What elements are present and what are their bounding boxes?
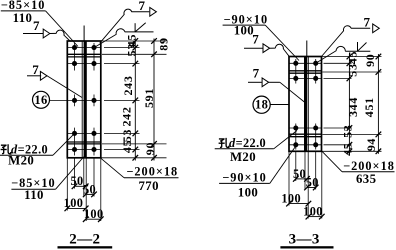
svg-text:100: 100 <box>84 207 104 221</box>
label hole leader to bolt <box>53 133 75 155</box>
svg-text:50: 50 <box>83 183 96 197</box>
weld symbol 7 lower-left: arrow triangle <box>40 71 47 80</box>
svg-text:53: 53 <box>341 124 355 137</box>
svg-text:110: 110 <box>24 188 44 202</box>
weld symbol flag right fig: flag stroke <box>358 43 367 52</box>
weld symbol 7 upper-left: arrow triangle <box>43 29 50 38</box>
label -200x18 leader <box>100 158 124 178</box>
inner chain extension lines right <box>324 62 352 64</box>
inner dimension line right <box>348 54 350 154</box>
brace member web plates right fig (thick bar + thin line) <box>304 57 307 152</box>
bolt row centerline r3 right <box>289 127 322 129</box>
svg-text:2—2: 2—2 <box>69 232 100 248</box>
weld symbol 7 upper-left right fig: reference line <box>244 47 263 49</box>
weld symbol 7 upper-right: arrow triangle <box>150 7 157 16</box>
label leader to top bolt <box>46 11 78 47</box>
svg-text:90: 90 <box>363 53 377 66</box>
svg-text:100: 100 <box>238 185 258 199</box>
weld symbol 7 upper-left: tail and all-around arc <box>50 32 57 34</box>
svg-text:45: 45 <box>120 140 134 153</box>
svg-text:M20: M20 <box>230 150 256 164</box>
inner dimension line <box>134 39 136 161</box>
section title 2-2 underline <box>58 246 113 248</box>
svg-text:16: 16 <box>34 93 47 107</box>
svg-text:53: 53 <box>346 63 360 76</box>
svg-text:243: 243 <box>121 75 135 95</box>
svg-text:M20: M20 <box>8 154 34 168</box>
label hole-dia glyph kong <box>1 145 6 147</box>
svg-text:344: 344 <box>346 97 360 117</box>
label hole underline right <box>215 148 274 150</box>
label -90x10 underline <box>223 24 266 26</box>
member centerline above plate right fig <box>306 41 308 57</box>
bolt row centerline r2 <box>67 63 101 65</box>
inner dimension ticks right <box>347 54 353 60</box>
svg-text:635: 635 <box>356 172 376 186</box>
brace member web plates (thin line + thick bar) <box>81 41 83 158</box>
weld symbol 7 lower-left: leader <box>47 76 82 98</box>
bolt row centerline r1 right <box>289 62 322 64</box>
svg-text:100: 100 <box>281 192 301 206</box>
svg-text:451: 451 <box>362 97 376 117</box>
weld symbol flag right: flag staff <box>134 23 136 32</box>
label underline <box>1 10 46 12</box>
svg-text:100: 100 <box>234 23 254 37</box>
bolt row centerline r5 <box>67 149 101 151</box>
bottom splice plate edge lines right fig <box>289 133 322 135</box>
svg-text:7: 7 <box>253 65 260 80</box>
weld symbol 7 upper-right right fig: arrow triangle <box>373 24 380 33</box>
bolt row centerline r2 right <box>289 77 322 79</box>
svg-text:591: 591 <box>142 88 156 108</box>
svg-text:50: 50 <box>293 167 306 181</box>
svg-text:−200×18: −200×18 <box>343 159 395 173</box>
dim line 50 first <box>75 185 86 187</box>
weld symbol 7 upper-left right fig: arrow triangle <box>263 44 270 53</box>
bolt row centerline r4 right <box>289 144 322 146</box>
weld symbol flag right fig: reference line <box>345 50 370 52</box>
top splice plate edge lines right fig <box>289 70 322 72</box>
svg-text:90: 90 <box>143 142 157 155</box>
member centerline above plate <box>83 26 85 42</box>
piece mark 18 leader <box>270 104 289 106</box>
bolt row centerline r3 with leader from mark 16 <box>50 99 101 101</box>
svg-text:7: 7 <box>33 18 40 33</box>
svg-text:53: 53 <box>124 43 138 56</box>
label hole leader right <box>274 131 297 149</box>
weld symbol 7 upper-right: leader <box>100 14 125 43</box>
weld symbol flag right: reference line <box>125 31 154 33</box>
weld symbol 7 upper-right: all-around arc <box>124 9 132 14</box>
weld symbol 7 lower-left right fig: reference line <box>248 81 262 83</box>
dim line 100 second <box>86 218 101 220</box>
svg-text:100: 100 <box>64 196 84 210</box>
weld symbol flag right fig: leader <box>316 51 337 64</box>
weld symbol 7 lower-left right fig: leader <box>269 81 280 83</box>
label -85x10 bottom leader <box>56 157 84 190</box>
dim line 100 first <box>67 207 85 209</box>
top splice plate edge lines <box>67 53 101 55</box>
weld symbol 7 upper-right right fig: leader <box>322 31 344 57</box>
label -200x18 underline <box>124 177 179 179</box>
outer dimension line <box>153 39 155 161</box>
svg-text:d=22.0: d=22.0 <box>229 136 266 150</box>
M20 bolts (10x) <box>72 45 77 50</box>
weld symbol 7 upper-right right fig: reference line <box>351 27 370 29</box>
svg-text:50: 50 <box>70 174 83 188</box>
outer dimension line right <box>377 54 379 154</box>
extension lines below plate <box>66 158 68 211</box>
bottom splice plate edge lines <box>67 141 101 143</box>
outer chain extension lines right <box>322 56 382 58</box>
extension lines below plate right <box>288 151 290 205</box>
svg-text:94: 94 <box>364 138 378 151</box>
M20 bolts right (8x) <box>293 61 298 66</box>
svg-text:7: 7 <box>363 15 370 30</box>
svg-text:7: 7 <box>252 31 259 46</box>
outer dimension ticks <box>151 38 157 44</box>
label -85x10 bottom underline <box>11 188 55 190</box>
dim line 50 first right <box>296 178 307 180</box>
gusset plate -200x18 outline (section 2-2) <box>67 41 101 158</box>
dim line 50 second right <box>307 187 316 189</box>
label -200x18 leader right <box>322 151 342 171</box>
label -90x10 leader <box>265 25 299 60</box>
dim line 100 second right <box>308 216 321 218</box>
weld symbol flag right: all-around arc <box>116 29 125 35</box>
weld symbol 7 lower-left right fig: arrow triangle <box>262 78 269 87</box>
weld symbol flag right: flag stroke <box>135 23 146 32</box>
svg-text:18: 18 <box>255 98 268 112</box>
svg-text:242: 242 <box>119 106 133 126</box>
weld symbol 7 lower-left: reference line <box>27 75 41 77</box>
svg-text:770: 770 <box>138 179 158 193</box>
svg-text:3—3: 3—3 <box>289 232 320 248</box>
weld symbol flag right: leader <box>94 34 116 47</box>
inner chain extension lines <box>104 47 140 49</box>
piece mark circle 18 <box>253 96 270 113</box>
label hole underline <box>0 154 53 156</box>
svg-text:110: 110 <box>13 11 33 25</box>
svg-text:45: 45 <box>341 142 355 155</box>
bolt column centerlines right <box>295 59 297 84</box>
bolt column centerlines <box>74 43 76 71</box>
svg-text:7: 7 <box>139 0 146 13</box>
svg-text:7: 7 <box>32 62 39 77</box>
label -90x10 bottom leader <box>270 146 296 183</box>
weld symbol flag right fig: all-around arc <box>336 46 345 51</box>
weld symbol 7 upper-left: reference line <box>23 33 43 35</box>
gusset plate -200x18 outline (section 3-3) <box>289 57 322 152</box>
weld symbol 7 upper-left right fig: tail and arc <box>270 47 276 49</box>
svg-text:50: 50 <box>306 176 319 190</box>
bolt row centerline r1 <box>67 47 101 49</box>
svg-text:45: 45 <box>346 51 360 64</box>
piece mark circle 16 <box>33 91 50 108</box>
section title 3-3 underline <box>280 246 333 248</box>
outer chain extension lines <box>101 40 167 42</box>
label -90x10 bottom underline <box>219 182 270 184</box>
label hole-dia glyph kong right <box>219 139 224 141</box>
dim line 100 first right <box>289 203 308 205</box>
weld symbol 7 upper-right: reference line <box>131 11 149 13</box>
bolt row centerline r4 <box>67 132 101 134</box>
svg-text:100: 100 <box>303 205 323 219</box>
weld symbol flag right fig: flag staff <box>357 42 359 51</box>
svg-text:89: 89 <box>157 37 171 50</box>
svg-text:−90×10: −90×10 <box>222 171 267 185</box>
dim line 50 second <box>86 193 94 195</box>
label -200x18 underline right <box>342 171 395 173</box>
inner dimension ticks <box>133 38 139 44</box>
weld symbol 7 upper-right right fig: all-around arc <box>343 26 351 31</box>
outer dimension ticks right <box>376 54 382 60</box>
svg-text:−200×18: −200×18 <box>126 165 178 179</box>
